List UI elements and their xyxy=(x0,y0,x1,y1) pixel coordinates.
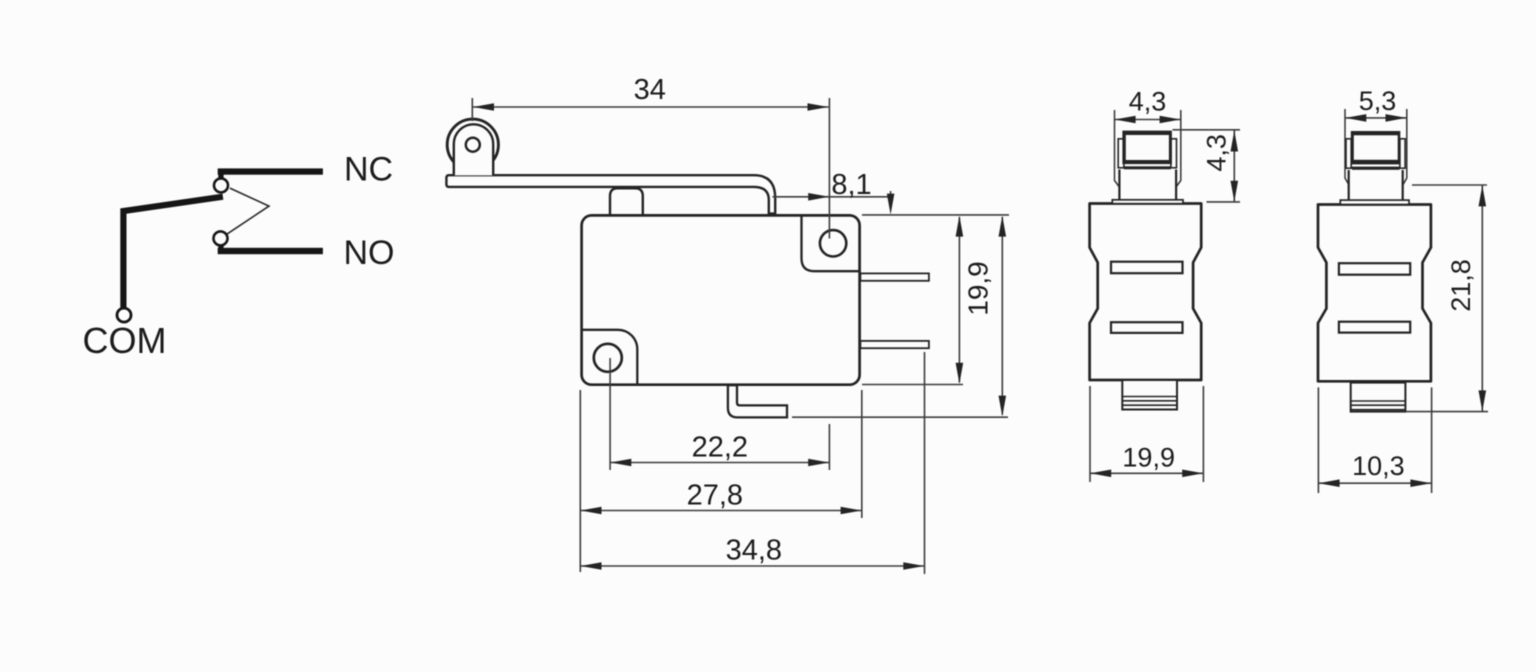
extension line body top right xyxy=(862,214,1009,216)
dimension 19,9 line xyxy=(1090,472,1203,474)
mounting hole bottom-left xyxy=(594,344,622,372)
view1 terminal block line 1 xyxy=(1122,396,1177,398)
dimension 4,3 height line xyxy=(1233,131,1235,202)
view2 button cap face xyxy=(1354,135,1398,160)
dimension 10,3 ext lines xyxy=(1317,387,1319,493)
roller fork tab xyxy=(454,124,493,175)
lever arm with bent tip xyxy=(446,175,775,213)
svg-text:19,9: 19,9 xyxy=(963,261,994,316)
svg-text:NO: NO xyxy=(344,234,395,272)
terminal prong NO (lower right) xyxy=(860,341,929,348)
view2 terminal block line 2 xyxy=(1351,404,1406,406)
view2 terminal block line 1 xyxy=(1351,400,1406,402)
extension line roller center xyxy=(471,98,473,121)
extension line 22,2 right lower xyxy=(828,424,830,470)
switch body xyxy=(582,215,860,384)
view2 plunger guide/ext right xyxy=(1403,109,1407,185)
svg-text:8,1: 8,1 xyxy=(831,169,871,201)
svg-text:34: 34 xyxy=(634,74,666,106)
dimension 21,8 top ext xyxy=(1412,184,1487,186)
view2 button ear left xyxy=(1346,139,1351,168)
dimension 10,3 line xyxy=(1319,482,1432,484)
svg-text:34,8: 34,8 xyxy=(726,535,782,567)
svg-text:10,3: 10,3 xyxy=(1352,451,1405,481)
dimension 4,3 height bottom ext xyxy=(1207,201,1241,203)
dimension line overall height (unlabeled outer) xyxy=(1001,217,1003,415)
svg-text:4,3: 4,3 xyxy=(1202,134,1232,172)
body bottom-left cutout line xyxy=(582,330,638,385)
extension line terminal tip right xyxy=(924,352,926,574)
extension line body right lower xyxy=(861,390,863,518)
dimension 21,8 line xyxy=(1481,185,1483,411)
roller wheel outer circle xyxy=(447,119,498,170)
dimension 4,3 height top ext xyxy=(1173,129,1241,131)
plunger button xyxy=(610,188,643,215)
view1 flange plate xyxy=(1112,200,1183,204)
view2 slot upper xyxy=(1339,263,1410,275)
wire NC stub xyxy=(218,171,223,179)
svg-text:19,9: 19,9 xyxy=(1122,442,1175,472)
svg-text:22,2: 22,2 xyxy=(692,432,748,464)
wire NO lead xyxy=(218,248,323,254)
view2 terminal block line 3 xyxy=(1351,409,1406,411)
dimension 21,8 bottom ext xyxy=(1405,411,1488,413)
extension line body bottom right xyxy=(862,384,963,386)
dimension 34,8 line xyxy=(581,565,925,567)
body top-right cutout line xyxy=(802,215,860,271)
wire NC lead xyxy=(218,168,323,174)
view1 slot lower xyxy=(1111,322,1183,333)
view1 button ear left xyxy=(1118,139,1124,168)
terminal COM (bottom L-shape) xyxy=(728,385,787,417)
roller axle hole xyxy=(466,138,480,152)
node NO contact circle xyxy=(214,231,228,245)
wire COM arm xyxy=(123,197,222,308)
view2 plunger guide/ext left xyxy=(1345,109,1349,185)
view2 button lower bar xyxy=(1352,167,1400,170)
node NC contact circle xyxy=(214,178,228,192)
dimension 22,2 line xyxy=(610,462,829,464)
view1 button ear right xyxy=(1171,139,1177,168)
dimension 5,3 line xyxy=(1345,117,1406,119)
node COM terminal circle xyxy=(117,308,131,322)
wire NO stub xyxy=(218,245,223,251)
extension line body left lower xyxy=(579,390,581,572)
view1 button lower bar xyxy=(1124,166,1171,169)
view2 button ear right xyxy=(1400,139,1405,168)
view2 button cap frame xyxy=(1351,131,1401,164)
view2 flange plate xyxy=(1340,200,1409,204)
dimension 8,1 down arrow xyxy=(890,191,892,198)
svg-text:NC: NC xyxy=(344,151,393,189)
svg-text:5,3: 5,3 xyxy=(1359,86,1397,116)
dimension 34 line xyxy=(473,106,829,108)
view1 plunger neck xyxy=(1119,170,1176,201)
terminal prong NC (upper right) xyxy=(860,273,929,280)
view2 terminal block xyxy=(1351,383,1406,412)
extension line hole center (34 right / 22.2 right) xyxy=(828,98,830,239)
svg-text:27,8: 27,8 xyxy=(687,480,743,512)
view1 terminal block xyxy=(1122,380,1177,410)
view1 body outline with side notches xyxy=(1090,204,1202,381)
dimension 19,9 ext lines xyxy=(1089,386,1091,482)
view1 button cap face xyxy=(1126,135,1169,160)
view1 terminal block line 3 xyxy=(1122,404,1177,406)
svg-text:4,3: 4,3 xyxy=(1129,87,1167,117)
view1 button cap frame xyxy=(1122,131,1172,165)
svg-text:21,8: 21,8 xyxy=(1446,259,1476,312)
view2 slot lower xyxy=(1339,322,1410,333)
dimension 27,8 line xyxy=(581,510,862,512)
view1 slot upper xyxy=(1111,262,1183,274)
extension line hole bottom-left center xyxy=(609,358,611,470)
dimension 4,3 width line xyxy=(1115,119,1181,121)
view2 plunger neck xyxy=(1349,170,1403,200)
svg-text:COM: COM xyxy=(83,320,167,361)
view1 plunger guide/ext right xyxy=(1176,110,1181,187)
view1 terminal block line 2 xyxy=(1122,400,1177,402)
wire movable contact blade (thin V) xyxy=(226,188,270,235)
mounting hole top-right xyxy=(820,230,846,256)
view1 plunger guide/ext left xyxy=(1115,110,1120,187)
view2 body outline with side notches xyxy=(1318,205,1431,382)
extension line terminal bottom xyxy=(792,416,1008,418)
dimension 19,9 line (body height) xyxy=(958,217,960,383)
dimension 8,1 leader line xyxy=(773,196,890,198)
